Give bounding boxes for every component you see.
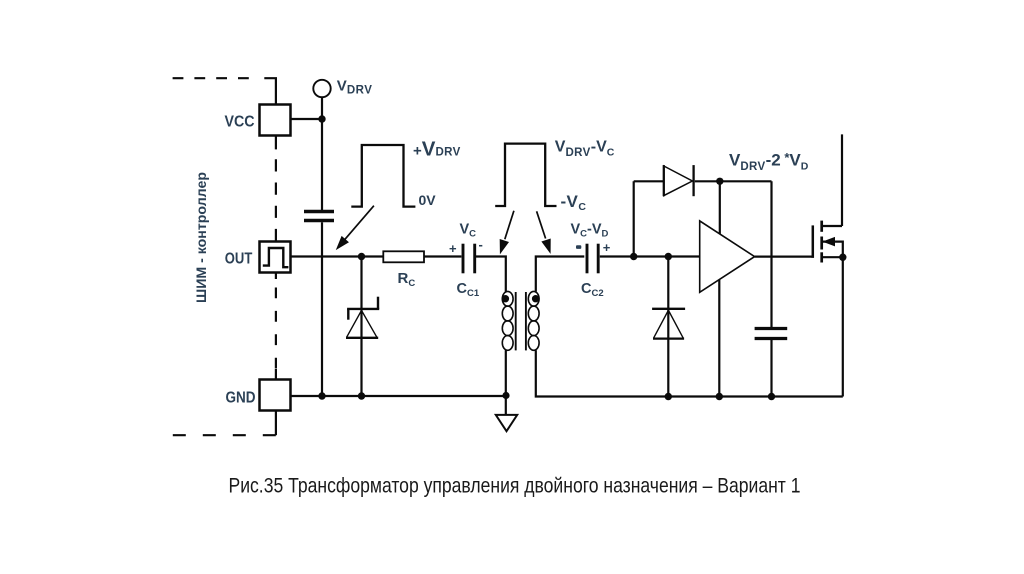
arrow waveform1 to OUT [343, 206, 374, 242]
transformer phase dot secondary [532, 295, 539, 302]
junction dot CC2-diode riser [630, 253, 637, 260]
transformer T secondary winding [528, 291, 539, 350]
junction dot bus primary [502, 392, 509, 399]
wire GND bus left [291, 395, 507, 397]
waveform2 pulse [495, 144, 556, 206]
arrow waveform2 left [505, 211, 514, 239]
zener VD1 cathode bar [347, 308, 379, 310]
svg-text:+: + [603, 240, 611, 255]
PWM boundary dashed vertical VCC to OUT [275, 136, 277, 150]
diode VD2 triangle [654, 310, 684, 338]
junction dot bus VDRV [318, 392, 325, 399]
junction dot bus zener1 [358, 392, 365, 399]
wire drain up [841, 134, 843, 226]
wire source down [842, 257, 844, 396]
op-amp buffer U1 triangle [700, 221, 755, 292]
capacitor output plates [755, 327, 788, 330]
arrow waveform2 right [537, 211, 546, 238]
transistor Q drain stub [822, 225, 842, 227]
transformer T primary winding [502, 291, 513, 350]
PWM boundary top-right corner [264, 78, 276, 104]
diode D cathode bar [692, 165, 694, 196]
wire VDRV vertical upper [321, 97, 323, 210]
wire cap to bus [770, 340, 772, 397]
transistor Q channel segments [820, 221, 823, 232]
svg-text:-: - [479, 237, 483, 252]
zener VD1 left tick [347, 309, 349, 320]
wire amp output to gate [755, 256, 812, 258]
svg-text:Рис.35 Трансформатор управлени: Рис.35 Трансформатор управления двойного… [229, 475, 801, 498]
wire CC1 to primary [476, 257, 506, 292]
wire secondary top to CC2 [536, 257, 585, 292]
junction dot VCC-VDRV [318, 115, 325, 122]
junction dot bus VD2 [665, 393, 672, 400]
svg-text:GND: GND [226, 390, 256, 407]
wire riser to diode branch [633, 181, 635, 256]
zener VD1 right tick [377, 297, 379, 309]
wire diode branch right [695, 180, 772, 182]
terminal V_DRV circle [313, 80, 330, 97]
svg-text:0V: 0V [419, 192, 437, 208]
zener VD1 wire [360, 257, 362, 397]
pin OUT box [260, 242, 291, 273]
wire VCC to VDRV line [291, 118, 323, 120]
PWM boundary dashed vertical OUT to GND [275, 273, 277, 280]
junction dot OUT-zener [358, 253, 365, 260]
transistor Q body stub [823, 242, 843, 258]
pin VCC box [260, 105, 291, 136]
OUT pulse glyph [263, 248, 289, 267]
pin GND box [260, 380, 291, 411]
svg-text:OUT: OUT [225, 250, 253, 267]
wire amp bottom stub [718, 280, 720, 397]
wire amp V+ riser [719, 181, 721, 234]
diode D anode bar [663, 165, 665, 196]
diode D triangle [664, 166, 693, 196]
resistor RC body [383, 251, 424, 262]
svg-text:+: + [449, 241, 457, 256]
wire CC2 to amp input [600, 255, 700, 257]
wire RC to CC1 [424, 255, 461, 257]
svg-text:VCC: VCC [225, 113, 255, 130]
capacitor decoupling plates [304, 210, 334, 213]
capacitor CC2 plates [586, 244, 589, 274]
PWM boundary bottom-right corner [275, 411, 277, 436]
diode VD2 cathode bar [652, 308, 685, 310]
transformer core bars [515, 292, 517, 350]
junction dot source [839, 254, 846, 261]
diode VD2 wire [667, 257, 669, 397]
junction dot amp input [665, 253, 672, 260]
transistor Q body arrow [824, 238, 835, 246]
wire secondary bottom and bus right [536, 350, 843, 396]
PWM controller dashed boundary top [173, 77, 250, 79]
zener VD1 triangle [347, 310, 377, 337]
label minus CC2 [576, 245, 581, 249]
transistor Q gate bar [812, 225, 815, 258]
wire diode branch left [634, 180, 664, 182]
junction dot bus cap [768, 393, 775, 400]
transformer phase dot primary [502, 295, 509, 302]
wire VDRV vertical lower [321, 222, 323, 396]
waveform1 pulse [351, 145, 415, 207]
wire OUT line [291, 255, 384, 257]
wire primary bottom to ground [505, 350, 507, 415]
svg-text:ШИМ - контроллер: ШИМ - контроллер [193, 172, 209, 303]
PWM boundary dashed bottom [173, 434, 276, 436]
junction dot diode branch [716, 178, 723, 185]
wire branch corner down to cap [770, 181, 772, 327]
ground symbol triangle [496, 415, 517, 431]
junction dot bus amp [716, 393, 723, 400]
transistor Q source stub [822, 256, 844, 258]
capacitor CC1 plates [462, 244, 465, 274]
